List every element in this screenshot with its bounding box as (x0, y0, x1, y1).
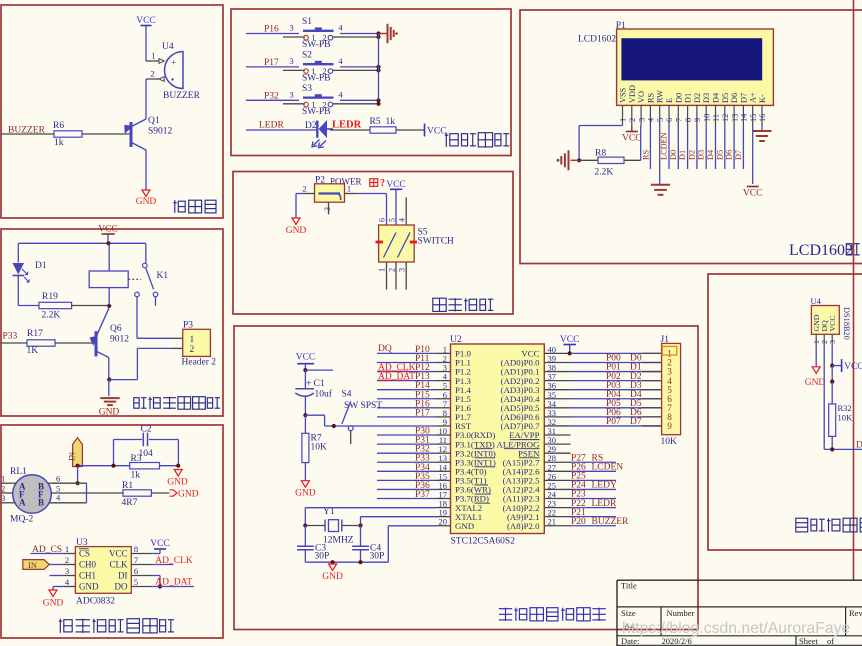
svg-text:IN: IN (67, 452, 77, 461)
svg-text:4R7: 4R7 (122, 498, 138, 508)
right wires to J1 (571, 352, 662, 354)
svg-text:D0: D0 (674, 93, 683, 103)
wire R1 to GND port (151, 492, 169, 494)
wire A+ to VCC (752, 126, 754, 185)
svg-text:U4: U4 (811, 296, 822, 306)
capacitor C4 30P (360, 526, 362, 547)
wire VO (640, 126, 642, 161)
svg-text:15: 15 (749, 114, 758, 122)
svg-text:9: 9 (667, 421, 672, 431)
svg-text:10K: 10K (838, 413, 854, 423)
svg-text:of: of (827, 636, 834, 646)
svg-text:RW: RW (656, 90, 665, 103)
wire IN down to RL1 (77, 466, 79, 484)
svg-text:P33: P33 (3, 332, 18, 342)
junction (376, 98, 380, 102)
svg-text:VCC: VCC (150, 539, 170, 549)
svg-text:Revision: Revision (849, 608, 862, 618)
resistor R7 10K (304, 415, 306, 433)
svg-text:6: 6 (378, 218, 387, 222)
LCD frame LCD1602液晶 (520, 10, 862, 264)
buzzer circuit frame 蜂鸣器 (1, 5, 223, 218)
wire D2 to R5 (330, 129, 370, 131)
svg-text:2: 2 (190, 345, 195, 355)
svg-text:D5: D5 (721, 93, 730, 103)
wire P2.2 to GND (295, 194, 297, 219)
svg-text:D4: D4 (712, 92, 721, 103)
svg-text:D3: D3 (702, 93, 711, 103)
svg-text:VCC: VCC (427, 127, 447, 137)
svg-text:IN: IN (28, 560, 37, 570)
wire E / LCDEN (668, 126, 670, 170)
svg-text:5: 5 (656, 118, 665, 122)
svg-text:CS: CS (79, 549, 90, 559)
right port wires P2x (571, 461, 617, 463)
earth ground (K-) (753, 130, 772, 132)
LCD pin stubs and numbers (622, 105, 624, 125)
svg-text:GND: GND (167, 478, 188, 488)
svg-text:VCC: VCC (560, 335, 580, 345)
svg-text:10uf: 10uf (315, 389, 333, 400)
svg-text:RS: RS (646, 92, 655, 103)
svg-text:P07: P07 (606, 417, 621, 427)
svg-text:BUZZER: BUZZER (163, 91, 201, 101)
svg-text:CH0: CH0 (79, 560, 97, 570)
svg-text:A: A (19, 498, 26, 508)
ground GND (U3) (49, 590, 57, 597)
wire RW to earth (659, 126, 661, 185)
wire P2.1 to switch S5 (356, 193, 387, 195)
svg-text:LEDR: LEDR (592, 499, 617, 509)
svg-text:16: 16 (758, 114, 767, 122)
wire VSS to gnd node (579, 125, 622, 127)
svg-text:VCC: VCC (136, 16, 156, 26)
svg-text:3: 3 (637, 118, 646, 122)
svg-text:D3: D3 (697, 150, 706, 160)
svg-text:12MHZ: 12MHZ (323, 536, 354, 546)
svg-text:(A8)P2.0: (A8)P2.0 (507, 521, 540, 531)
svg-text:2.2K: 2.2K (42, 311, 61, 321)
svg-text:VCC: VCC (296, 353, 316, 363)
junction (376, 31, 380, 35)
wire LEDR to D2 (246, 129, 318, 131)
buzzer U4 pin 2 (146, 78, 159, 80)
svg-text:VCC: VCC (844, 362, 862, 372)
wire P3 pin2 to emitter node (137, 347, 173, 349)
wire BUZZER to R6 (1, 133, 54, 135)
svg-text:1: 1 (619, 118, 628, 122)
svg-text:1K: 1K (27, 346, 39, 356)
capacitor C3 30P (304, 526, 306, 547)
svg-text:CH1: CH1 (79, 571, 96, 581)
ground GND (buzzer) (142, 190, 150, 197)
junction (376, 65, 380, 69)
svg-text:1: 1 (65, 544, 69, 554)
svg-text:VCC: VCC (109, 549, 128, 559)
wire buzzer pin2 to Q1 collector (145, 79, 147, 119)
wire C2 loop (113, 440, 115, 466)
ground GND (R7) (301, 481, 309, 488)
fan control frame 风扇控制电路 (1, 229, 223, 416)
power symbol VCC (keys) (424, 124, 426, 137)
svg-text:Size: Size (621, 608, 636, 618)
power symbol VCC (temp) (841, 359, 843, 372)
wire to S4 and RST (305, 414, 324, 416)
svg-text:ADC0832: ADC0832 (76, 597, 115, 607)
svg-text:2: 2 (628, 118, 637, 122)
svg-text:2: 2 (1, 484, 5, 494)
svg-text:3: 3 (828, 340, 837, 344)
svg-text:3: 3 (289, 23, 293, 33)
svg-text:8: 8 (134, 544, 138, 554)
svg-text:D1: D1 (678, 150, 687, 160)
svg-text:P20: P20 (571, 517, 586, 527)
svg-text:1: 1 (1, 474, 5, 484)
svg-text:2: 2 (388, 268, 397, 272)
svg-text:3: 3 (65, 566, 69, 576)
svg-text:Sheet: Sheet (799, 636, 819, 646)
svg-text:R19: R19 (42, 292, 58, 302)
svg-text:5: 5 (388, 218, 397, 222)
svg-text:R32: R32 (838, 403, 852, 413)
svg-text:?: ? (380, 178, 385, 189)
svg-text:VCC: VCC (98, 225, 118, 235)
sheet right border (853, 0, 855, 580)
svg-text:1k: 1k (131, 471, 141, 481)
left net wires (377, 352, 436, 354)
svg-text:30P: 30P (315, 552, 330, 562)
power symbol VCC (A+ maroon) (747, 186, 759, 188)
buzzer U4 pin 1 (146, 60, 159, 62)
svg-text:D2: D2 (305, 121, 317, 131)
wire K- to earth (761, 126, 763, 132)
svg-text:S2: S2 (302, 50, 312, 60)
svg-text:R17: R17 (27, 329, 43, 339)
svg-text:7: 7 (675, 118, 684, 122)
svg-text:S3: S3 (302, 84, 312, 94)
svg-text:2: 2 (150, 69, 154, 79)
earth ground (keys) (379, 33, 388, 35)
svg-text:10K: 10K (311, 443, 328, 453)
svg-text:Q6: Q6 (110, 324, 122, 334)
svg-text:Title: Title (621, 581, 637, 591)
svg-text:VCC: VCC (622, 134, 642, 144)
wire DI to DO (152, 575, 160, 577)
svg-text:LCDEN: LCDEN (660, 132, 669, 160)
wire pins 6-4 bracket (86, 483, 88, 503)
ground GND (C2) (174, 470, 182, 477)
wire R3 row (78, 465, 130, 467)
wire pin3 to R32 (831, 366, 833, 382)
earth ground (RW) (651, 184, 670, 186)
svg-text:8: 8 (684, 118, 693, 122)
svg-text:DI: DI (118, 571, 128, 581)
svg-text:Q1: Q1 (148, 116, 160, 126)
svg-text:7: 7 (134, 555, 138, 565)
wire K1 NO to P3 pin1 (136, 297, 138, 339)
svg-text:Y1: Y1 (323, 507, 335, 517)
svg-text:AD_DAT: AD_DAT (378, 372, 415, 382)
wire CH1 (50, 575, 63, 577)
svg-text:SW-PB: SW-PB (302, 40, 331, 50)
svg-text:6: 6 (134, 566, 138, 576)
svg-text:GND: GND (295, 489, 316, 499)
temperature sensor frame 温度传感器 (708, 274, 862, 550)
svg-text:D1: D1 (35, 261, 47, 271)
svg-text:Number: Number (667, 608, 695, 618)
svg-text:LEDR: LEDR (332, 120, 362, 131)
svg-text:MQ-2: MQ-2 (10, 515, 33, 525)
switch S5 SWITCH (379, 225, 415, 262)
earth ground (LCD left) (571, 159, 580, 161)
U4 pins 1 2 3 (815, 334, 817, 345)
wire pin20 GND (388, 525, 436, 527)
svg-text:1k: 1k (386, 117, 396, 127)
wire P16 to switch S1 (246, 33, 299, 35)
svg-text:STC12C5A60S2: STC12C5A60S2 (451, 537, 516, 547)
wire pin3 to VCC (831, 345, 833, 366)
wire S2 to common (340, 66, 379, 68)
svg-text:5: 5 (134, 577, 138, 587)
svg-text:DQ: DQ (378, 344, 392, 354)
LED D1 (17, 243, 19, 262)
svg-text:D1: D1 (684, 93, 693, 103)
svg-text:LCD1602: LCD1602 (789, 242, 853, 259)
MCU frame 单片机最小系统 (234, 326, 698, 630)
wire Q6 emitter down (108, 358, 110, 380)
svg-text:C2: C2 (141, 425, 152, 435)
svg-text:GND: GND (178, 490, 199, 500)
svg-text:S9012: S9012 (148, 127, 173, 137)
svg-text:D0: D0 (669, 150, 678, 160)
svg-text:SWITCH: SWITCH (418, 237, 455, 247)
title 烟雾传感器电路 (59, 619, 72, 633)
svg-text:30P: 30P (370, 552, 385, 562)
svg-text:1k: 1k (54, 138, 64, 148)
S5 top pins 6 5 4 (405, 197, 407, 225)
svg-text:6: 6 (665, 118, 674, 122)
svg-text:LCDEN: LCDEN (592, 463, 624, 473)
svg-text:B: B (38, 498, 44, 508)
svg-text:10K: 10K (661, 437, 678, 447)
capacitor C1 10uf (304, 370, 306, 389)
svg-text:3: 3 (1, 493, 5, 503)
svg-text:LCD1602: LCD1602 (578, 35, 616, 45)
svg-text:SW-PB: SW-PB (302, 73, 331, 83)
svg-text:D2: D2 (693, 93, 702, 103)
wire P17 to switch S2 (246, 66, 299, 68)
svg-text:RS: RS (642, 149, 651, 160)
wire RS (649, 126, 651, 170)
svg-text:BUZZER: BUZZER (592, 517, 630, 527)
svg-text:4: 4 (398, 218, 407, 222)
transistor Q1 S9012 (130, 122, 133, 147)
key circuit frame 按键电路 (231, 9, 511, 156)
S5 bottom pins 1 2 3 (386, 262, 388, 290)
wire R5 to VCC (396, 129, 425, 131)
transistor Q6 9012 (95, 331, 98, 356)
svg-text:11: 11 (712, 114, 721, 122)
svg-text:S1: S1 (302, 17, 312, 27)
wire pin1 to GND (815, 345, 817, 367)
wires D0-D7 (677, 126, 679, 170)
wire D1 to R19 (17, 276, 19, 306)
svg-text:1: 1 (347, 184, 351, 194)
svg-text:LEDY: LEDY (592, 481, 617, 491)
svg-text:R6: R6 (53, 121, 64, 131)
title 单片机最小系统 (499, 608, 512, 621)
svg-text:1: 1 (378, 268, 387, 272)
title 电源接口 (433, 298, 446, 311)
svg-text:D5: D5 (715, 150, 724, 160)
J1 pin1 highlight (662, 346, 677, 355)
wire common vertical (378, 34, 380, 101)
svg-text:https://blog.csdn.net/AuroraFa: https://blog.csdn.net/AuroraFaye (622, 620, 851, 637)
svg-text:GND: GND (99, 408, 120, 418)
svg-text:DO: DO (115, 582, 128, 592)
port GND (right arrow) (170, 490, 178, 496)
title 温度传感器 (796, 518, 808, 532)
svg-text:GND: GND (286, 226, 307, 236)
wire GND rail (305, 561, 388, 563)
wire S3 to common (340, 99, 379, 101)
svg-text:D7: D7 (739, 93, 748, 103)
net label AD_DAT (152, 586, 194, 588)
port IN (horizontal) (23, 560, 50, 570)
svg-text:R5: R5 (370, 117, 381, 127)
svg-text:AD_CLK: AD_CLK (155, 556, 193, 566)
wire top rail (18, 242, 146, 244)
svg-text:GND: GND (136, 197, 157, 207)
svg-text:VCC: VCC (828, 315, 837, 331)
svg-text:D6: D6 (730, 93, 739, 103)
svg-text:P17: P17 (415, 408, 430, 418)
relay coil K1 (89, 271, 128, 288)
svg-text:VCC: VCC (743, 189, 763, 199)
svg-text:2: 2 (302, 184, 306, 194)
power interface frame 电源接口 (233, 172, 513, 315)
LCD screen (621, 38, 762, 80)
svg-text:VO: VO (637, 91, 646, 103)
svg-text:LEDR: LEDR (259, 121, 284, 131)
svg-text:U4: U4 (162, 42, 174, 52)
svg-text:9: 9 (693, 118, 702, 122)
wire R19 to relay node (72, 305, 110, 307)
svg-text:AD_DAT: AD_DAT (155, 578, 192, 588)
svg-text:GND: GND (322, 572, 343, 582)
title block (617, 579, 862, 581)
title 蜂鸣器 (173, 200, 185, 213)
svg-text:GND: GND (805, 378, 826, 388)
wire to ground (108, 380, 110, 396)
svg-text:D4: D4 (706, 149, 715, 160)
net label AD_CLK (152, 564, 173, 566)
wire VCC to buzzer pin1 (145, 26, 147, 62)
power symbol VCC (VDD pin maroon) (631, 126, 633, 132)
svg-text:D7: D7 (630, 417, 642, 427)
svg-text:D7: D7 (734, 150, 743, 160)
svg-text:3: 3 (289, 56, 293, 66)
svg-text:+: + (306, 379, 312, 390)
svg-text:D2: D2 (687, 150, 696, 160)
port IN (vertical) (73, 438, 83, 467)
svg-text:S4: S4 (342, 390, 352, 400)
svg-text:Date:: Date: (621, 636, 639, 646)
svg-text:DQ: DQ (856, 441, 862, 451)
svg-text:12: 12 (721, 114, 730, 122)
earth ground (fan) (100, 397, 119, 399)
wire P32 to switch S3 (246, 99, 299, 101)
svg-text:10: 10 (702, 114, 711, 122)
resistor R32 10K (829, 404, 836, 437)
ground GND (crystal) (329, 564, 337, 571)
svg-text:C1: C1 (314, 379, 325, 389)
svg-text:SW-PB: SW-PB (302, 107, 331, 117)
svg-text:D6: D6 (725, 150, 734, 160)
svg-text:Header 2: Header 2 (182, 358, 217, 368)
svg-text:GND: GND (79, 582, 99, 592)
wire R17 to Q6 base (55, 342, 95, 344)
svg-text:6: 6 (56, 474, 60, 484)
svg-text:A+: A+ (749, 92, 758, 103)
svg-text:3: 3 (398, 268, 407, 272)
wire Q1 emitter to GND (145, 150, 147, 190)
wire DQ (823, 345, 825, 449)
svg-text:GND: GND (43, 599, 64, 609)
svg-text:VSS: VSS (619, 87, 628, 103)
svg-text:2: 2 (65, 555, 69, 565)
svg-text:3: 3 (289, 89, 293, 99)
svg-text:9012: 9012 (110, 335, 129, 345)
svg-text:+: + (171, 58, 176, 68)
svg-text:GND: GND (455, 521, 474, 531)
svg-text:SW SPST: SW SPST (344, 401, 382, 411)
svg-text:K-: K- (758, 94, 767, 103)
wire R6 to Q1 base (82, 133, 130, 135)
svg-text:13: 13 (730, 114, 739, 122)
wire GND pin (53, 586, 63, 588)
wire K1 NC stub (155, 297, 157, 306)
svg-text:2.2K: 2.2K (595, 168, 614, 178)
title 风扇控制电路 (134, 398, 147, 409)
svg-text:P37: P37 (415, 490, 430, 500)
svg-text:CLK: CLK (110, 560, 129, 570)
svg-text:VDD: VDD (628, 85, 637, 103)
ground GND (power) (292, 218, 300, 225)
svg-text:2020/2/6: 2020/2/6 (662, 636, 692, 646)
svg-text:E: E (665, 98, 674, 103)
U2 pin name underlines (475, 448, 493, 450)
svg-text:K1: K1 (157, 271, 169, 281)
ground GND (U4) (812, 367, 820, 374)
svg-text:DS18B20: DS18B20 (842, 307, 851, 340)
smoke sensor frame 烟雾传感器电路 (1, 425, 223, 638)
title 按键电路 (445, 133, 458, 147)
svg-text:1: 1 (151, 51, 155, 61)
svg-text:1: 1 (190, 335, 195, 345)
net label 电? (370, 179, 378, 187)
svg-text:3: 3 (323, 207, 332, 211)
wire S1 to common (340, 33, 379, 35)
svg-text:14: 14 (740, 113, 749, 122)
